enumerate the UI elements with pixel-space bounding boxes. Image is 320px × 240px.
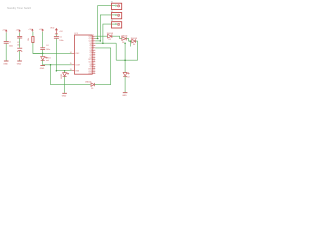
svg-text:11: 11 xyxy=(93,70,95,72)
svg-text:red: red xyxy=(127,76,130,79)
svg-text:15: 15 xyxy=(70,63,72,65)
svg-text:C5: C5 xyxy=(59,36,61,38)
junction dot I xyxy=(124,42,126,44)
wire row4 SW3 net xyxy=(95,42,116,44)
svg-text:Q6: Q6 xyxy=(89,43,91,45)
svg-text:GND: GND xyxy=(40,68,45,70)
LED LED2 xyxy=(63,73,69,77)
svg-text:D4: D4 xyxy=(133,44,135,46)
wire vertical left drop xyxy=(51,65,91,85)
svg-text:OSC: OSC xyxy=(75,53,80,55)
LED LED3 xyxy=(123,73,129,77)
ground GND4 xyxy=(62,92,67,94)
svg-text:1N4148: 1N4148 xyxy=(85,81,91,83)
supply +5V symbol P2 xyxy=(18,29,20,32)
capacitor C2 xyxy=(17,36,22,38)
svg-text:OS2: OS2 xyxy=(88,73,91,75)
svg-text:16: 16 xyxy=(93,67,95,69)
junction dot B xyxy=(56,70,58,72)
wire LED1 to gnd xyxy=(42,60,44,65)
wire col1 lower xyxy=(5,44,7,61)
ground GND2 xyxy=(17,60,22,62)
LED LED1 xyxy=(41,57,47,61)
wire rail pin13 xyxy=(56,70,71,72)
supply +5V symbol P4 xyxy=(42,29,44,32)
ground GND5 xyxy=(123,92,128,94)
wire row2 SW1 net xyxy=(95,38,97,40)
capacitor C4 xyxy=(40,48,45,50)
svg-text:13: 13 xyxy=(93,60,95,62)
wire rail pin14 xyxy=(33,52,72,54)
switch S3 box xyxy=(112,22,122,28)
right pin stubs and numbers xyxy=(88,35,95,75)
svg-text:OS1: OS1 xyxy=(88,71,91,73)
diode D4 xyxy=(132,39,136,43)
resistor R1 xyxy=(32,37,34,43)
supply +5V symbol P5 xyxy=(55,28,58,34)
wire SW3 vertical and top xyxy=(103,24,112,43)
svg-text:10: 10 xyxy=(93,72,95,74)
svg-text:S2: S2 xyxy=(111,11,113,13)
LED LED2 drop below pin13 rail xyxy=(64,71,66,73)
svg-text:1N4148: 1N4148 xyxy=(131,38,137,40)
svg-text:11: 11 xyxy=(93,56,95,58)
svg-text:Q13: Q13 xyxy=(89,38,92,40)
svg-text:GND: GND xyxy=(17,63,22,65)
ground GND3 xyxy=(40,65,45,67)
supply +5V symbol P3 xyxy=(31,29,33,32)
wire col4 to junction xyxy=(42,50,44,57)
svg-text:D3: D3 xyxy=(122,42,124,44)
wire D4 to corner down xyxy=(116,41,137,60)
svg-text:Q2: Q2 xyxy=(89,54,91,56)
svg-text:Q4: Q4 xyxy=(89,50,91,52)
wire col5 down to pin13 rail xyxy=(55,39,57,71)
capacitor C1 xyxy=(4,42,9,44)
svg-text:C1: C1 xyxy=(9,42,11,44)
svg-text:GND: GND xyxy=(3,63,8,65)
svg-text:Q7: Q7 xyxy=(89,47,91,49)
svg-text:GND: GND xyxy=(122,95,127,97)
wire rail pin15 xyxy=(43,64,72,66)
diode D3 xyxy=(122,37,126,41)
switch S1 contacts xyxy=(112,5,120,7)
wire SW2 vertical and top xyxy=(100,15,111,41)
wire col2 upper xyxy=(19,33,21,37)
svg-text:red: red xyxy=(46,59,49,62)
junction dot F xyxy=(97,38,99,40)
switch S2 box xyxy=(112,13,122,19)
svg-text:S3: S3 xyxy=(111,20,113,22)
wire D3 to D4 with jog xyxy=(126,39,131,42)
svg-text:14: 14 xyxy=(70,52,72,54)
switch S3 contacts xyxy=(112,23,120,25)
svg-text:COM: COM xyxy=(75,65,80,67)
svg-text:1N4148: 1N4148 xyxy=(107,33,113,35)
wire col2 mid xyxy=(19,38,21,47)
svg-text:1N4148: 1N4148 xyxy=(121,36,127,38)
wire LED3 feed vertical xyxy=(124,43,126,72)
svg-text:D2: D2 xyxy=(109,39,111,41)
junction dot H xyxy=(102,42,104,44)
svg-text:Q1: Q1 xyxy=(89,57,91,59)
pin 14 stub xyxy=(72,53,75,70)
switch S1 box xyxy=(112,3,122,9)
wire col5 upper xyxy=(55,34,57,36)
junction dot C xyxy=(50,64,52,66)
capacitor C5 xyxy=(54,37,59,39)
svg-text:Q14: Q14 xyxy=(89,40,92,42)
svg-text:GND: GND xyxy=(62,96,67,98)
ground GND1 xyxy=(4,60,9,62)
wire bottom right of D5 xyxy=(95,48,111,85)
wire row1 to D2 xyxy=(95,35,107,37)
wire LED3 to gnd xyxy=(124,76,126,92)
svg-text:D5: D5 xyxy=(91,88,93,90)
svg-text:LED2: LED2 xyxy=(61,74,63,79)
svg-text:100n: 100n xyxy=(59,40,63,42)
svg-text:Q3: Q3 xyxy=(89,52,91,54)
svg-text:Q8: Q8 xyxy=(89,64,91,66)
wire vertical x116 xyxy=(115,43,117,60)
junction dot D xyxy=(64,70,66,72)
IC U1 box xyxy=(75,35,93,74)
wire col4 upper xyxy=(42,32,44,48)
svg-text:Standby Timer Switch: Standby Timer Switch xyxy=(7,7,32,10)
junction dot J xyxy=(124,59,126,61)
svg-text:S1: S1 xyxy=(111,2,113,4)
svg-text:100n: 100n xyxy=(46,49,50,51)
junction dot A xyxy=(42,53,44,55)
wire col2 lower xyxy=(19,51,21,61)
svg-text:C4: C4 xyxy=(46,45,48,47)
svg-text:10: 10 xyxy=(93,53,95,55)
svg-text:10k: 10k xyxy=(28,38,30,41)
switch S2 contacts xyxy=(112,14,120,16)
svg-text:Q9: Q9 xyxy=(89,66,91,68)
wire LED2 to gnd xyxy=(64,77,66,93)
svg-text:VDD: VDD xyxy=(50,28,55,30)
wire vertical from dot E xyxy=(129,41,131,46)
wire SW1 vertical and top xyxy=(98,6,112,39)
wire col3 lower with corner to rail xyxy=(33,43,43,54)
wire D2 to D3 with jog xyxy=(112,36,122,38)
svg-text:100n: 100n xyxy=(9,45,13,47)
svg-text:RST: RST xyxy=(88,59,91,61)
capacitor C3 polarized xyxy=(17,48,22,51)
wire col3 upper xyxy=(32,32,34,37)
svg-text:Q12: Q12 xyxy=(89,36,92,38)
diode D5 xyxy=(91,83,94,86)
supply +5V symbol P1 xyxy=(5,29,7,32)
junction dot G xyxy=(100,40,102,42)
svg-text:12: 12 xyxy=(93,58,95,60)
wire col1 upper xyxy=(5,33,7,42)
wire row3 SW2 net xyxy=(95,40,100,42)
svg-text:13: 13 xyxy=(70,69,72,71)
junction dot E xyxy=(130,40,132,42)
svg-text:Q5: Q5 xyxy=(89,45,91,47)
diode D2 xyxy=(108,34,112,38)
